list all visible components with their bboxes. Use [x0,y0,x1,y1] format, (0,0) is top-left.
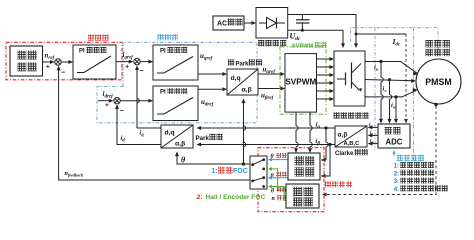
svg-text:Park: Park [236,61,250,67]
svg-text:d,q: d,q [231,75,241,82]
svg-text:d,q: d,q [165,130,175,137]
svg-text:PMSM: PMSM [425,77,451,87]
svg-text:−: − [140,68,144,75]
svg-text:PI: PI [79,49,85,55]
block Park变换 [161,125,193,148]
label 速度反馈 (speed feedback, red) [325,181,331,187]
wire n_ref : 转速设定 to summing junction [43,61,55,63]
AC source block AC电源 [213,16,244,30]
svg-text:nfeedback: nfeedback [65,171,85,178]
wire i_beta : Clarke to Park [198,144,336,146]
svg-text:+: + [46,64,50,71]
wire u_qref : PI q to inverse Park [198,73,226,75]
wire q junction to PI q [141,61,153,63]
svg-text:Hall / Encoder FOC: Hall / Encoder FOC [206,194,266,201]
speed sensor node on motor [434,103,437,106]
svg-text:PI: PI [160,49,166,55]
dashed I_dc sense wire down to current ADC [405,34,407,121]
DC bus U_dc rail to inverter [288,30,343,47]
wire junction to PI speed regulator [62,61,73,63]
svg-text:AC: AC [217,21,227,28]
label 反Park变换 [228,59,234,65]
block SVPWM [285,54,317,113]
wire u_alpha_ref [258,73,284,75]
dashed speed sensor wire to 速度检测 [323,106,436,195]
wire i_qref : PI out to q summing junction [116,61,133,63]
svg-text:PI: PI [160,90,166,96]
node i_alpha tap [324,126,327,129]
mode switch box [250,156,267,189]
DC bus top rail to inverter [288,15,356,48]
wire n feedback to speed junction [59,66,250,180]
summing junction q current [134,58,140,64]
block 反Park变换 (inverse Park transform) [227,69,258,95]
svg-text:+: + [105,102,109,109]
inverter block (three phase bridge) [334,51,365,106]
phase wire i_v [365,80,415,81]
svg-text:α,β: α,β [338,132,348,139]
switch poles and contacts [251,163,254,166]
wire n_det detection to switch (green) [269,187,286,201]
wire i_dref input [98,100,113,102]
block 速度估算 (speed estimator) [288,153,320,180]
wire i_q feedback to q junction [137,127,161,129]
SVPWM algorithm green dashed box [280,47,326,114]
label 电流环 (current loop) [158,34,164,40]
PI curve [77,56,111,73]
node I_dc tap on DC rail [355,33,358,36]
rectifier block 整流电路 with diode [256,8,288,39]
speed loop dashed red box 速度环 [6,42,122,80]
summing junction speed [55,59,61,65]
label 三相逆变桥 [334,112,340,118]
wire theta up to inverse Park [243,126,245,164]
svg-text:Clarke: Clarke [335,151,354,157]
DC link capacitor [301,15,303,20]
wire u_dref : PI d to inverse Park [198,88,226,90]
svg-text:ADC: ADC [386,138,403,147]
svg-text:SVPWM: SVPWM [285,78,316,87]
PMSM motor circle [416,59,461,104]
wire AC to rectifier [244,22,255,24]
ADC output wires to Clarke (i_u,i_v,i_w) [369,126,379,128]
IGBT symbol [337,78,345,80]
current sensor drop wires to ADC [380,62,382,78]
current loop dashed blue box 电流环 (notched) [97,42,257,122]
block 转速设定 (speed setting) [10,46,43,76]
wire theta_est estimator to switch (blue) [269,159,288,161]
estimator input wires from SVPWM (u_alpha,u_beta) [295,112,297,126]
svg-text:α,β: α,β [242,87,252,94]
wire n_est estimator to switch (blue) [269,177,288,179]
summing junction d current [114,98,120,104]
node i_beta tap [328,143,331,146]
wire d junction to PI d [121,100,153,102]
svg-text:2:: 2: [394,171,399,177]
node: capacitor junction [301,29,304,32]
svg-text:Park: Park [196,135,210,142]
block PI调节器 (q-axis PI) [153,45,198,80]
wire I_dc sense tap [356,33,406,35]
wire theta_det detection to switch (green) [269,169,286,190]
label 永磁同步电机 [426,40,433,47]
wire i_alpha tap to estimator [325,128,327,142]
wire i_beta tap to estimator [322,145,331,177]
phase wire i_u inverter to PMSM [365,62,417,74]
svg-text:3:: 3: [394,179,399,185]
label 电流采样 (current sampling, blue) + callout arrow [393,152,395,156]
wire u_beta_ref [258,88,284,90]
block 速度检测 (speed detection) [286,184,319,208]
block PI调节器 (d-axis PI) [153,86,198,121]
svg-text:FOC: FOC [233,168,248,175]
svg-text:1:: 1: [212,168,218,175]
block Clarke变换 [335,126,367,147]
wire theta to Park transform [177,152,250,164]
blue dash-dot current sampling guide lines [351,28,438,57]
svg-text:α,β: α,β [175,141,185,148]
label 速度环 (speed loop) [88,35,94,41]
block PI调节器 (speed PI regulator) [73,45,116,79]
svg-text:−: − [61,70,65,77]
svg-text:1:: 1: [394,164,399,170]
svg-text:+: + [125,63,129,70]
label 整流电路 [258,40,264,46]
block 电流ADC (current ADC) [378,124,410,148]
wire i_alpha : Clarke to Park [198,127,336,129]
svg-text:4:: 4: [394,187,399,193]
node theta branch [242,162,245,165]
svg-text:iw: iw [370,139,374,145]
svg-text:A,B,C: A,B,C [344,141,361,147]
svg-text:−: − [120,108,124,115]
phase wire i_w [365,90,417,97]
Hall/Encoder dashed red box [258,148,324,212]
svg-text:iv: iv [370,131,373,137]
svg-text:2:: 2: [197,194,203,201]
6 PWM gate wires SVPWM to inverter [317,58,334,60]
svg-text:SVPWM: SVPWM [292,43,313,49]
svg-text:iu: iu [369,123,372,129]
wire i_d feedback to d junction [117,105,161,145]
